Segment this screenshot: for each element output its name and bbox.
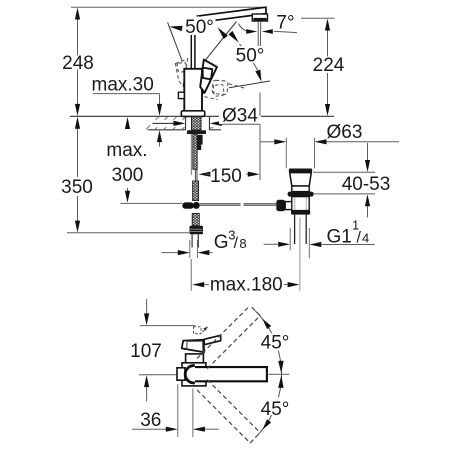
- svg-text:50°: 50°: [185, 17, 214, 38]
- faucet body: [184, 69, 202, 111]
- Ø63 dimension line: [260, 141, 274, 143]
- pop-up rod knurled lower: [193, 181, 199, 201]
- Ø63 extension lines: [285, 138, 287, 169]
- svg-text:/: /: [234, 235, 239, 252]
- svg-text:G: G: [214, 232, 229, 253]
- drain tailpipe: [294, 215, 296, 244]
- 50 right flank line (handle axis): [205, 22, 236, 61]
- drain body cylinder: [292, 197, 309, 211]
- svg-text:50°: 50°: [236, 46, 265, 67]
- linkage ball: [193, 202, 200, 209]
- 107 dimension line top: [146, 299, 148, 313]
- plan spout: [195, 367, 267, 381]
- linkage rod: [200, 203, 241, 205]
- G3/8 extension lines: [189, 240, 191, 258]
- svg-text:G1: G1: [327, 226, 352, 247]
- hose end reference line: [121, 202, 183, 204]
- max.180 dimension line: [192, 282, 204, 287]
- 45 lower near arrow: [278, 375, 283, 388]
- 50 right flank line 2: [229, 81, 270, 88]
- svg-text:224: 224: [313, 55, 345, 76]
- 40-53 top arrow: [367, 143, 369, 161]
- counter hole edge right: [209, 116, 211, 130]
- max.300 bottom arrow: [127, 188, 129, 191]
- svg-text:107: 107: [130, 341, 162, 362]
- plan handle grip bar: [204, 335, 221, 344]
- dimension 224 vertical line: [327, 31, 329, 57]
- plan spout cap arc: [185, 366, 195, 383]
- handle square hole: [203, 68, 213, 80]
- Ø34 right arrow: [210, 121, 222, 126]
- svg-text:300: 300: [112, 165, 144, 186]
- 150 left arrow: [198, 172, 210, 177]
- hose left edge: [190, 134, 192, 175]
- threaded shank: [192, 116, 202, 130]
- dimension 350 vertical line: [77, 129, 79, 178]
- 7 degree right arrow: [262, 29, 273, 34]
- svg-text:150: 150: [210, 166, 242, 187]
- linkage clevis: [182, 202, 194, 208]
- dashed handle position left: [175, 59, 187, 86]
- dashed spout position lower: [197, 390, 250, 443]
- max.180 left extension: [190, 259, 192, 291]
- 36 extension lines: [177, 384, 179, 437]
- G3/8 right arrow: [197, 250, 209, 255]
- Ø34 leader underline: [222, 123, 261, 125]
- linkage clamp knob: [276, 200, 285, 211]
- 107 top reference line: [140, 325, 195, 327]
- plan handle inner lines: [187, 340, 203, 342]
- 40-53 top reference line: [313, 171, 375, 173]
- svg-text:max.: max.: [106, 140, 147, 161]
- G1 1/4 extension lines: [289, 228, 291, 250]
- drain plug cap: [289, 169, 312, 173]
- extension line hose end (350 ref): [67, 232, 189, 234]
- dashed handle position right: [212, 80, 228, 94]
- 107 bottom reference line: [139, 374, 186, 376]
- svg-text:40-53: 40-53: [342, 174, 391, 195]
- 107 dimension line bottom: [144, 375, 149, 387]
- dimension 248 bottom arrow: [75, 104, 80, 116]
- svg-text:4: 4: [362, 231, 369, 246]
- svg-text:Ø63: Ø63: [327, 122, 363, 143]
- counter hole edge left: [185, 116, 187, 130]
- max.30 arrow below counter: [157, 130, 162, 142]
- plan cartridge housing: [186, 354, 204, 364]
- 7 degree left arrow: [246, 29, 257, 34]
- hose knurled section: [192, 214, 199, 226]
- counter top line: [70, 115, 221, 117]
- svg-text:max.30: max.30: [92, 75, 154, 96]
- hose end walls: [191, 234, 193, 247]
- Ø34 left arrow: [153, 122, 174, 124]
- svg-text:Ø34: Ø34: [222, 106, 258, 127]
- 50 right arc: [240, 44, 258, 70]
- body side knob: [178, 92, 184, 98]
- svg-text:7°: 7°: [276, 13, 294, 34]
- G1 1/4 left arrow: [264, 243, 279, 245]
- svg-text:36: 36: [140, 410, 161, 431]
- counter bottom line: [148, 129, 186, 131]
- pop-up rod knurled upper: [193, 134, 197, 169]
- dimension 224 bottom arrow: [325, 104, 330, 116]
- 50 right lower arrow: [255, 70, 261, 82]
- plan base: [182, 363, 206, 386]
- drain seal ring: [288, 192, 314, 197]
- linkage clamp sleeve: [285, 202, 294, 210]
- Ø34 white halo: [150, 120, 185, 127]
- Ø34 leader vertical: [259, 93, 261, 117]
- svg-text:248: 248: [62, 53, 94, 74]
- 150 right arrow: [246, 173, 248, 175]
- svg-text:45°: 45°: [261, 399, 290, 420]
- dimension 248 vertical line: [77, 20, 79, 56]
- mounting washer: [187, 130, 206, 134]
- svg-text:45°: 45°: [261, 333, 290, 354]
- label 50 left background: [184, 17, 216, 36]
- hose nipple: [197, 135, 202, 145]
- max.30 leader line: [93, 93, 160, 95]
- max.30 arrow to counter top: [157, 104, 162, 116]
- 50 double arrows on handle axis: [218, 27, 228, 39]
- pop-up rod plain section: [194, 169, 196, 181]
- plan centerline: [267, 373, 290, 375]
- spout aerator: [252, 14, 267, 21]
- drain lower ring: [291, 210, 310, 214]
- hose nut: [190, 226, 204, 235]
- extension line top (spout height reference): [71, 6, 265, 8]
- plan handle pad: [182, 340, 205, 352]
- svg-text:350: 350: [61, 177, 93, 198]
- 40-53 bottom reference line: [314, 193, 376, 195]
- extension line outlet level (224 ref): [301, 17, 335, 19]
- spout pipe: [190, 19, 192, 69]
- 36 dimension line: [132, 428, 166, 430]
- svg-text:8: 8: [239, 236, 246, 251]
- plan dashed spout tip: [194, 327, 202, 334]
- 50 left flank line: [168, 22, 182, 60]
- 45 upper near arrow: [278, 361, 283, 374]
- label 50 right background: [236, 46, 265, 63]
- base flange: [181, 111, 204, 117]
- handle lever: [200, 60, 217, 93]
- 50 left arrow: [169, 26, 182, 31]
- drain upper cylinder: [292, 186, 309, 192]
- 45 degree arc: [255, 311, 272, 334]
- G3/8 left arrow: [162, 252, 179, 254]
- 45 upper far arrow: [262, 319, 271, 329]
- dashed spout position upper: [207, 316, 260, 369]
- 40-53 bottom arrow: [365, 194, 370, 206]
- Ø34 label background: [219, 105, 261, 125]
- dimension 350 top arrow: [75, 117, 80, 129]
- dimension 248 top arrow: [75, 8, 80, 20]
- water stream lines: [257, 22, 259, 48]
- counter hatching: [146, 117, 159, 130]
- G1 1/4 right arrow: [309, 242, 321, 247]
- max.300 top arrow: [125, 117, 130, 129]
- 45 lower far arrow: [262, 419, 271, 429]
- plan side knob: [177, 368, 185, 380]
- dimension 224 top arrow: [325, 19, 330, 31]
- spout body: [197, 7, 267, 22]
- dimension 350 bottom arrow: [75, 221, 80, 233]
- drain neck: [290, 173, 312, 186]
- drain centerline: [299, 218, 301, 291]
- svg-text:max.180: max.180: [210, 275, 283, 296]
- svg-text:/: /: [357, 229, 362, 246]
